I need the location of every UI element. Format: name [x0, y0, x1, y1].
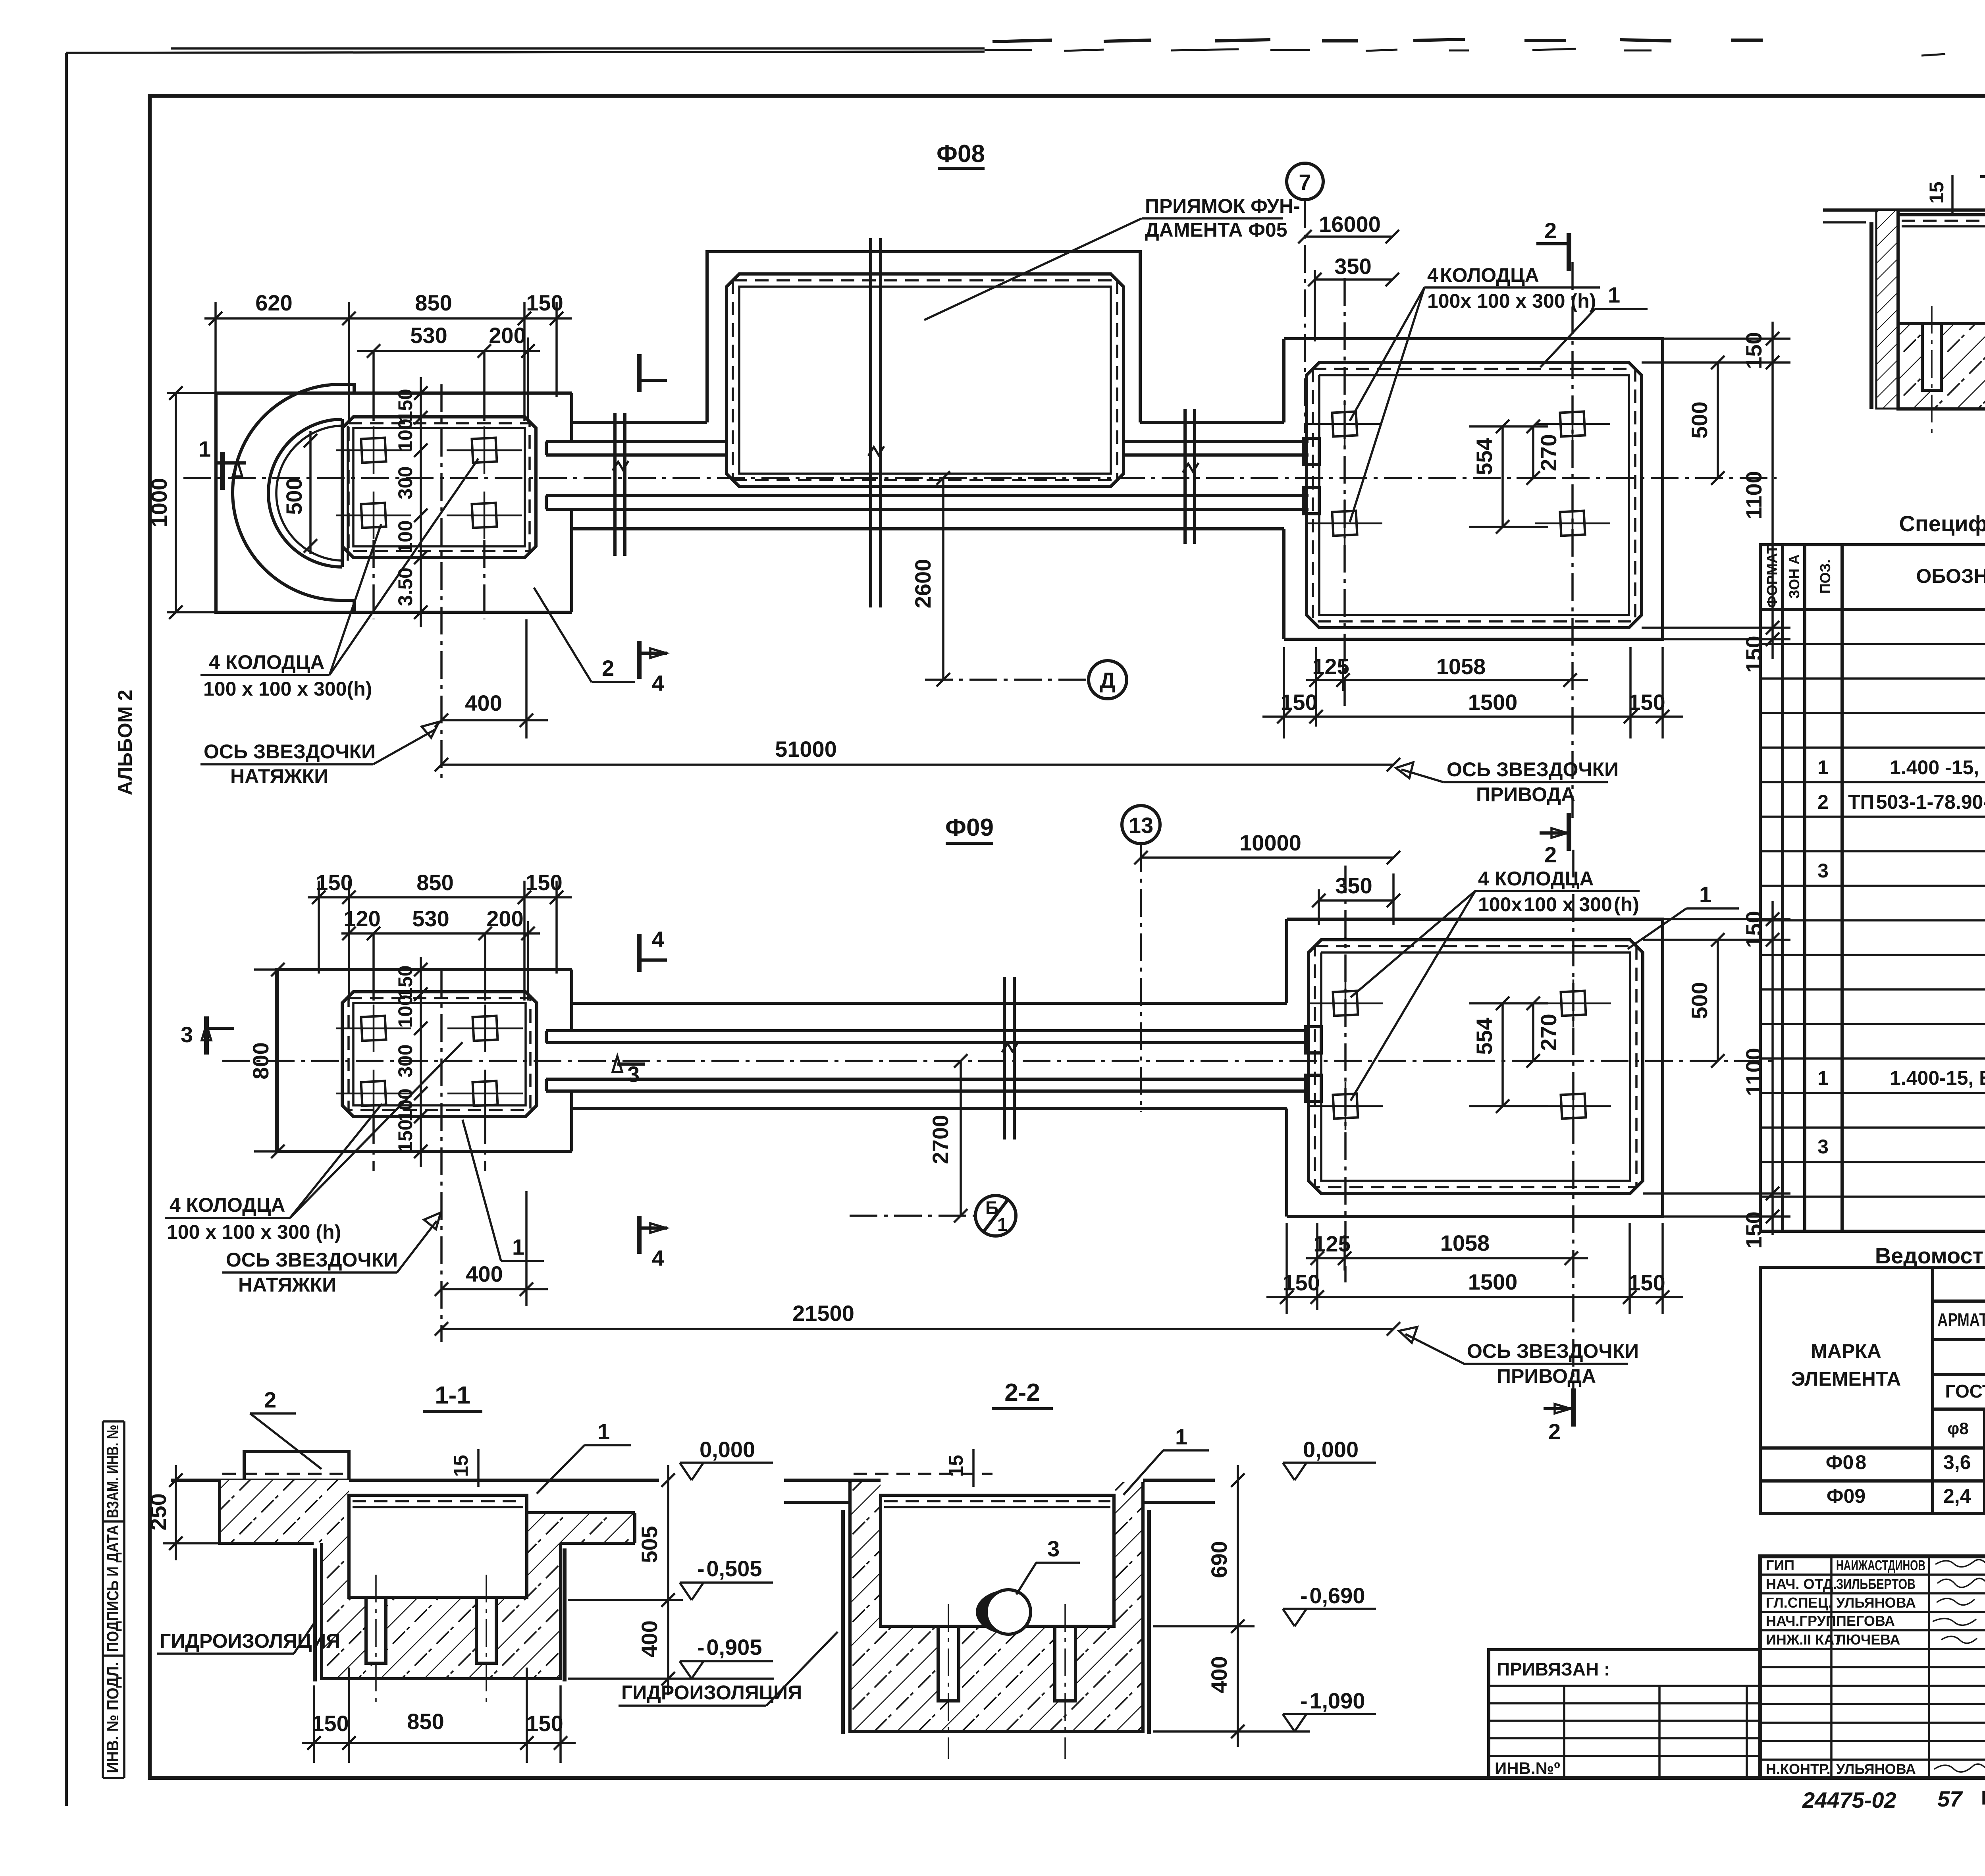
- bottom dims 150 1500 150: [1283, 647, 1285, 738]
- svg-text:НАИЖАСТДИНОВ: НАИЖАСТДИНОВ: [1836, 1557, 1925, 1573]
- foundation box: [881, 1495, 1114, 1626]
- svg-text:МАРКА: МАРКА: [1811, 1340, 1881, 1362]
- svg-text:ИНВ. № ПОДЛ.: ИНВ. № ПОДЛ.: [103, 1662, 122, 1773]
- dim 51000: [441, 764, 1393, 766]
- svg-text:350: 350: [1334, 254, 1371, 279]
- svg-text:ЗОН А: ЗОН А: [1786, 554, 1802, 599]
- svg-text:1: 1: [512, 1234, 524, 1259]
- chord line for 500 dim: [309, 431, 312, 554]
- channel axis F09: [222, 1060, 1777, 1062]
- dim 350 top: [1315, 278, 1392, 281]
- svg-text:100x 100 x 300 (h): 100x 100 x 300 (h): [1427, 290, 1596, 312]
- svg-text:1: 1: [198, 436, 211, 461]
- dim 350: [1319, 899, 1393, 902]
- floor line: [171, 1479, 659, 1482]
- svg-text:ИНВ.№º: ИНВ.№º: [1495, 1759, 1560, 1778]
- svg-text:500: 500: [281, 478, 306, 515]
- svg-text:150: 150: [312, 1711, 349, 1736]
- svg-text:100 x 100 x 300(h): 100 x 100 x 300(h): [203, 678, 372, 700]
- svg-text:ПРИВОДА: ПРИВОДА: [1476, 783, 1575, 806]
- connection tabs on left edge: [1303, 438, 1319, 465]
- svg-text:Ф0 8: Ф0 8: [1826, 1451, 1866, 1473]
- floor lines: [784, 1479, 881, 1482]
- piles: [938, 1626, 959, 1701]
- F09 right element main square: [1309, 940, 1643, 1193]
- svg-text:400: 400: [465, 690, 502, 715]
- elevation 0.000: [680, 1463, 773, 1480]
- bottom dims 125 1058: [1316, 1223, 1318, 1310]
- svg-text:2: 2: [602, 656, 614, 681]
- channel outer top / bottom lines: [572, 421, 707, 424]
- svg-text:ГИДРОИЗОЛЯЦИЯ: ГИДРОИЗОЛЯЦИЯ: [621, 1681, 802, 1704]
- pit left wall hatch: [322, 1480, 349, 1679]
- svg-text:1: 1: [597, 1419, 610, 1444]
- left element outer pit boundary: [216, 393, 572, 612]
- bottom dims 150 1500 150: [1285, 1223, 1288, 1314]
- section 4 cut marks: [639, 934, 640, 972]
- collar verticals joining arc to footing: [341, 419, 344, 567]
- svg-text:350: 350: [1335, 873, 1372, 898]
- svg-text:АРМАТУРА КЛАССА: АРМАТУРА КЛАССА: [1937, 1309, 1985, 1330]
- svg-text:2: 2: [1817, 791, 1829, 813]
- svg-text:100: 100: [394, 1088, 416, 1121]
- svg-text:1058: 1058: [1440, 1230, 1490, 1255]
- signature rows text: [1766, 1557, 1985, 1777]
- section 4 cut marks near left element: [639, 354, 640, 392]
- svg-text:100x 100 x 300 (h): 100x 100 x 300 (h): [1478, 893, 1639, 916]
- svg-text:- 1,090: - 1,090: [1300, 1688, 1365, 1713]
- svg-text:4 КОЛОДЦА: 4 КОЛОДЦА: [209, 651, 324, 673]
- svg-text:1: 1: [1817, 756, 1829, 779]
- svg-text:3.50: 3.50: [394, 567, 416, 606]
- channel axis F08: [183, 477, 1777, 479]
- svg-text:ЗИЛЬБЕРТОВ: ЗИЛЬБЕРТОВ: [1836, 1576, 1916, 1592]
- scan artifact top edge: [992, 39, 1763, 42]
- dim 2600 and axis D: [942, 478, 944, 680]
- vertical dim stack 150/100/300/100/150: [420, 957, 422, 1167]
- svg-text:Ведомость РАСХОДА СТАЛИ НА: Ведомость РАСХОДА СТАЛИ НА ЭЛЕМЕНТ, КГ: [1875, 1243, 1985, 1268]
- svg-text:400: 400: [637, 1620, 662, 1657]
- svg-text:150: 150: [526, 1711, 563, 1736]
- svg-text:ПОЗ.: ПОЗ.: [1817, 559, 1833, 594]
- svg-text:1500: 1500: [1468, 690, 1518, 715]
- svg-text:10000: 10000: [1239, 830, 1301, 855]
- svg-text:Ф09: Ф09: [1827, 1485, 1866, 1507]
- svg-text:270: 270: [1536, 434, 1561, 471]
- svg-text:2,4: 2,4: [1943, 1485, 1971, 1507]
- vertical dim stack 150/100/300/100/350: [420, 377, 422, 627]
- svg-text:3,6: 3,6: [1943, 1451, 1971, 1473]
- signature table grid: [1760, 1556, 1985, 1778]
- svg-text:150: 150: [316, 870, 353, 895]
- dim 2700 and axis B/1: [960, 1061, 962, 1216]
- element centre axis: [440, 970, 443, 1342]
- section 2 cut marks: [1569, 233, 1569, 271]
- dim row 120 530 200: [341, 932, 540, 935]
- dim row 150 850 150: [308, 881, 572, 1001]
- svg-text:1058: 1058: [1436, 654, 1486, 679]
- svg-text:150: 150: [394, 389, 416, 422]
- inner dims 554 / 270: [1469, 1003, 1556, 1106]
- svg-text:150: 150: [1280, 690, 1317, 715]
- dim 505/400 right: [667, 1465, 669, 1695]
- foundation box: [1898, 215, 1985, 324]
- svg-text:57: 57: [1937, 1786, 1963, 1811]
- svg-text:ПРИВЯЗАН :: ПРИВЯЗАН :: [1497, 1659, 1610, 1679]
- svg-text:1: 1: [1699, 882, 1711, 907]
- waterproofing lines: [313, 1548, 317, 1681]
- svg-text:АЛЬБОМ 2: АЛЬБОМ 2: [114, 690, 136, 795]
- svg-text:ОБОЗНАЧЕНИЕ: ОБОЗНАЧЕНИЕ: [1916, 565, 1985, 587]
- svg-text:250: 250: [146, 1493, 171, 1530]
- axis circle 13: [1122, 806, 1160, 844]
- svg-text:УЛЬЯНОВА: УЛЬЯНОВА: [1836, 1761, 1916, 1777]
- svg-text:150: 150: [1741, 636, 1766, 673]
- elevation 0,000: [1283, 1463, 1376, 1480]
- svg-text:2700: 2700: [928, 1115, 953, 1165]
- dim 800 vertical: [277, 970, 279, 1151]
- svg-text:51000: 51000: [775, 737, 837, 762]
- svg-text:100: 100: [394, 418, 416, 451]
- dim 400 left: [441, 1288, 548, 1290]
- svg-text:1: 1: [997, 1214, 1008, 1235]
- svg-text:7: 7: [1299, 170, 1311, 195]
- bottom dims of right element: 125 1058: [1315, 647, 1317, 727]
- svg-text:150: 150: [1628, 1270, 1665, 1295]
- svg-text:ГОСТ 5781-82*: ГОСТ 5781-82*: [1945, 1381, 1985, 1402]
- svg-text:400: 400: [1206, 1656, 1231, 1693]
- svg-text:15: 15: [1925, 181, 1948, 204]
- right side dims F09 element: [1643, 901, 1790, 1235]
- pryamok pit outer: [707, 252, 1140, 422]
- svg-text:21500: 21500: [792, 1301, 854, 1326]
- soil under box: [349, 1597, 527, 1679]
- svg-text:4 КОЛОДЦА: 4 КОЛОДЦА: [1478, 868, 1594, 890]
- svg-text:200: 200: [486, 906, 523, 931]
- svg-text:850: 850: [415, 290, 452, 315]
- break marks: [615, 238, 1195, 607]
- svg-text:15: 15: [450, 1455, 472, 1477]
- svg-text:120: 120: [343, 906, 380, 931]
- elevation -1,090: [1283, 1714, 1376, 1731]
- right slab: [561, 1513, 635, 1543]
- svg-text:1-1: 1-1: [435, 1382, 470, 1409]
- svg-text:НАТЯЖКИ: НАТЯЖКИ: [230, 765, 328, 787]
- inner dims 554 / 270: [1469, 426, 1556, 527]
- svg-text:4: 4: [652, 671, 664, 696]
- svg-text:- 0,690: - 0,690: [1300, 1583, 1365, 1608]
- svg-text:- 0,505: - 0,505: [697, 1556, 762, 1581]
- pit right wall hatch: [527, 1513, 561, 1679]
- channel wall pairs: [546, 1029, 1309, 1032]
- svg-text:13: 13: [1129, 813, 1153, 838]
- kolodets squares right element: [1308, 979, 1383, 1027]
- svg-text:100 x 100 x 300 (h): 100 x 100 x 300 (h): [167, 1221, 341, 1243]
- grid: [1760, 1267, 1985, 1514]
- block pos.2 on floor: [244, 1452, 349, 1480]
- svg-text:850: 850: [416, 870, 453, 895]
- waterproofing: [841, 1510, 845, 1734]
- svg-text:530: 530: [410, 323, 447, 348]
- svg-text:ГИДРОИЗОЛЯЦИЯ: ГИДРОИЗОЛЯЦИЯ: [160, 1630, 340, 1652]
- svg-text:2: 2: [1544, 842, 1557, 867]
- svg-text:Спецификация элементов на: Спецификация элементов на один фундамент: [1899, 511, 1985, 536]
- svg-text:2: 2: [264, 1387, 276, 1412]
- svg-text:УЛЬЯНОВА: УЛЬЯНОВА: [1836, 1595, 1916, 1611]
- floor slab hatched left: [220, 1480, 322, 1543]
- svg-text:150: 150: [526, 290, 563, 315]
- dim 16000: [1305, 235, 1392, 238]
- pryamok pit inner rect: [727, 274, 1124, 486]
- piles: [1922, 324, 1985, 390]
- svg-text:530: 530: [412, 906, 449, 931]
- svg-text:1000: 1000: [146, 478, 172, 528]
- svg-text:ОСЬ ЗВЕЗДОЧКИ: ОСЬ ЗВЕЗДОЧКИ: [1447, 758, 1619, 781]
- left element outer boundary: [276, 970, 572, 1151]
- axis circle 7: [1287, 163, 1323, 200]
- break marks: [1004, 977, 1014, 1139]
- svg-text:2-2: 2-2: [1004, 1379, 1040, 1406]
- svg-text:400: 400: [466, 1261, 503, 1286]
- kolodets squares left element: [336, 426, 411, 474]
- svg-text:100: 100: [394, 520, 416, 553]
- dim row 620 850 150: [204, 302, 572, 421]
- svg-text:Ф08: Ф08: [937, 140, 985, 168]
- svg-text:150: 150: [394, 965, 416, 998]
- svg-text:100: 100: [394, 995, 416, 1028]
- soil below: [881, 1626, 1114, 1731]
- section 3 cut marks: [206, 1016, 207, 1055]
- bottom dims 150 850 150: [302, 1668, 576, 1763]
- F08 right element outer: [1284, 339, 1663, 639]
- svg-text:1.400 -15, ВЫП.1: 1.400 -15, ВЫП.1: [1890, 756, 1985, 779]
- svg-text:1: 1: [1175, 1424, 1187, 1449]
- F08 right element main square: [1307, 362, 1642, 628]
- svg-text:1: 1: [1817, 1067, 1829, 1089]
- svg-text:ВЗАМ. ИНВ. №: ВЗАМ. ИНВ. №: [103, 1425, 122, 1518]
- F09 right element outer: [1287, 919, 1663, 1217]
- soil hatch under box: [1898, 324, 1985, 409]
- dim 21500: [441, 1328, 1393, 1330]
- F08 left footing (bevel rect): [342, 417, 536, 557]
- svg-text:150: 150: [1283, 1270, 1320, 1295]
- svg-text:270: 270: [1536, 1014, 1561, 1051]
- svg-text:16000: 16000: [1319, 212, 1381, 237]
- kolodets squares right element: [1307, 400, 1382, 448]
- right side dims F08 element: [1642, 322, 1790, 659]
- dims 690/400: [1237, 1465, 1239, 1747]
- svg-text:КОПИРОВАЛ ЕВСТЕГНЕЕВА: КОПИРОВАЛ ЕВСТЕГНЕЕВА: [1981, 1787, 1985, 1809]
- horseshoe inner double arc: [268, 419, 342, 567]
- svg-text:ПРИЯМОК ФУН-: ПРИЯМОК ФУН-: [1145, 195, 1300, 217]
- svg-text:НАЧ. ОТД.: НАЧ. ОТД.: [1766, 1576, 1837, 1592]
- svg-text:ГИП: ГИП: [1766, 1557, 1794, 1573]
- svg-text:3: 3: [181, 1022, 193, 1047]
- svg-text:150: 150: [394, 1119, 416, 1152]
- dim 10000: [1141, 856, 1393, 859]
- svg-text:НАЧ.ГРУП.: НАЧ.ГРУП.: [1766, 1613, 1840, 1629]
- svg-text:ЛЮЧЕВА: ЛЮЧЕВА: [1836, 1631, 1900, 1648]
- svg-text:125: 125: [1312, 654, 1349, 679]
- svg-text:ЭЛЕМЕНТА: ЭЛЕМЕНТА: [1791, 1368, 1901, 1390]
- svg-text:1100: 1100: [1741, 1048, 1766, 1096]
- svg-text:ПОДПИСЬ И ДАТА: ПОДПИСЬ И ДАТА: [103, 1525, 122, 1652]
- pipe circle pos.3: [986, 1590, 1031, 1634]
- svg-text:3: 3: [1047, 1536, 1060, 1561]
- 500 dim label: [304, 434, 317, 447]
- foundation box: [349, 1495, 527, 1597]
- channel-element junction jogs: [545, 442, 548, 509]
- elevation -0.505: [680, 1583, 773, 1600]
- privyazan box: [1489, 1650, 1760, 1778]
- svg-text:500: 500: [1687, 401, 1712, 438]
- channel outer lines: [572, 1002, 1287, 1005]
- svg-text:620: 620: [255, 290, 292, 315]
- outer border top dashed remnants: [985, 49, 1985, 56]
- svg-text:3: 3: [1817, 1136, 1829, 1158]
- kolodets squares left: [336, 1005, 411, 1052]
- svg-text:- 0,905: - 0,905: [697, 1635, 762, 1660]
- svg-text:ГЛ.СПЕЦ.: ГЛ.СПЕЦ.: [1766, 1595, 1832, 1611]
- svg-text:ОСЬ ЗВЕЗДОЧКИ: ОСЬ ЗВЕЗДОЧКИ: [226, 1249, 398, 1271]
- svg-text:125: 125: [1313, 1231, 1350, 1256]
- step to right element: [1282, 339, 1285, 422]
- svg-text:ИНЖ.II КАТ: ИНЖ.II КАТ: [1766, 1631, 1842, 1648]
- left attribute strip: [103, 1421, 124, 1778]
- svg-text:850: 850: [407, 1709, 444, 1734]
- svg-text:Д: Д: [1100, 668, 1116, 693]
- svg-text:ТП 503-1-78.90-КЖ.И.3В: ТП 503-1-78.90-КЖ.И.3В: [1848, 791, 1985, 813]
- svg-text:1.400-15, ВЫП.1: 1.400-15, ВЫП.1: [1890, 1067, 1985, 1089]
- elevation -0.905: [680, 1661, 773, 1679]
- svg-text:505: 505: [637, 1526, 662, 1563]
- svg-text:690: 690: [1206, 1541, 1231, 1578]
- signatures squiggles: [1933, 1560, 1985, 1772]
- svg-text:ОСЬ ЗВЕЗДОЧКИ: ОСЬ ЗВЕЗДОЧКИ: [204, 740, 376, 763]
- svg-text:15: 15: [945, 1455, 967, 1477]
- svg-text:0,000: 0,000: [700, 1437, 755, 1462]
- dim 1000 vertical: [175, 393, 177, 612]
- section 2 cut mark bottom: [1573, 1388, 1574, 1427]
- floor line: [1823, 208, 1985, 212]
- svg-text:4: 4: [652, 927, 664, 952]
- svg-text:500: 500: [1687, 982, 1712, 1019]
- svg-text:3: 3: [1817, 860, 1829, 882]
- elevation -0,690: [1283, 1609, 1376, 1626]
- svg-text:4 КОЛОДЦА: 4 КОЛОДЦА: [170, 1194, 285, 1216]
- svg-text:1100: 1100: [1741, 471, 1766, 519]
- outer box: [1760, 1556, 1985, 1778]
- svg-text:1500: 1500: [1468, 1269, 1518, 1294]
- grid: [1760, 545, 1985, 1231]
- svg-text:4 КОЛОДЦА: 4 КОЛОДЦА: [1427, 264, 1539, 286]
- axis line of circle 7: [1304, 201, 1306, 433]
- kolodets axes verticals: [372, 351, 375, 421]
- svg-text:24475-02: 24475-02: [1802, 1787, 1896, 1812]
- svg-text:150: 150: [525, 870, 562, 895]
- section 1 cut mark left: [222, 452, 223, 490]
- svg-text:4: 4: [652, 1246, 664, 1271]
- dim 250 left: [175, 1465, 177, 1560]
- svg-text:Ф09: Ф09: [945, 814, 994, 841]
- pit walls hatched: [850, 1482, 881, 1731]
- svg-text:2: 2: [1544, 218, 1557, 243]
- svg-text:0,000: 0,000: [1303, 1437, 1359, 1462]
- channel wall pairs: [546, 440, 727, 443]
- element centre axis (tension sprocket axis): [440, 384, 443, 778]
- piles: [366, 1597, 386, 1663]
- svg-text:800: 800: [248, 1042, 273, 1079]
- svg-text:ФОРМАТ: ФОРМАТ: [1764, 545, 1780, 608]
- svg-text:554: 554: [1472, 1018, 1497, 1055]
- svg-text:Н.КОНТР.: Н.КОНТР.: [1766, 1761, 1831, 1777]
- svg-text:ОСЬ ЗВЕЗДОЧКИ: ОСЬ ЗВЕЗДОЧКИ: [1467, 1340, 1639, 1362]
- F09 left footing (bevel rect): [342, 992, 537, 1116]
- svg-text:150: 150: [1628, 690, 1665, 715]
- svg-text:1: 1: [1608, 282, 1620, 307]
- svg-text:ДАМЕНТА Ф05: ДАМЕНТА Ф05: [1145, 219, 1287, 241]
- outer page border top: [66, 52, 985, 53]
- svg-text:Б: Б: [985, 1197, 998, 1218]
- svg-text:2600: 2600: [910, 559, 935, 609]
- left wall hatched: [1876, 210, 1898, 409]
- svg-text:150: 150: [1741, 332, 1766, 369]
- dim row 530 200: [357, 350, 540, 352]
- svg-text:300: 300: [394, 1044, 416, 1077]
- svg-text:ПРИВОДА: ПРИВОДА: [1497, 1365, 1596, 1387]
- step to right element: [1285, 919, 1288, 1003]
- svg-text:НАТЯЖКИ: НАТЯЖКИ: [238, 1274, 336, 1296]
- svg-text:3: 3: [627, 1062, 640, 1087]
- dim 400 left: [441, 719, 548, 721]
- outer page border left: [65, 53, 68, 1806]
- svg-text:ПЕГОВА: ПЕГОВА: [1836, 1613, 1895, 1629]
- svg-text:300: 300: [394, 466, 416, 499]
- svg-text:φ8: φ8: [1947, 1419, 1968, 1438]
- svg-text:554: 554: [1472, 438, 1497, 475]
- svg-text:200: 200: [489, 323, 526, 348]
- horseshoe outer arc: [233, 384, 341, 600]
- svg-text:2: 2: [1548, 1419, 1561, 1444]
- svg-text:150: 150: [1741, 911, 1766, 948]
- vertical axes of right element: [1343, 278, 1346, 707]
